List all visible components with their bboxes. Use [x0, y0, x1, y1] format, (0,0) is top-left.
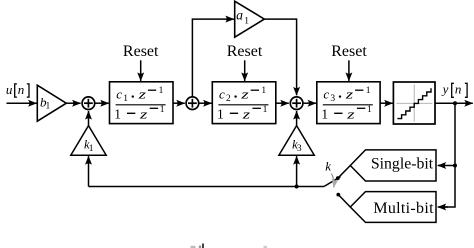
- wire a1 to sum3 top: [264, 19, 296, 95]
- DAC block Single-bit: [350, 150, 436, 181]
- summing junction S3: [290, 97, 303, 110]
- amplifier k1: [71, 126, 106, 156]
- switch arm: [324, 177, 341, 187]
- svg-text:z: z: [346, 107, 355, 121]
- integrator block 3: [317, 82, 380, 124]
- wire input arrow into b1: [7, 102, 37, 104]
- wire reset arrow 3: [348, 60, 350, 81]
- svg-text:z: z: [345, 87, 354, 101]
- svg-text:z: z: [240, 87, 249, 101]
- DAC block Multi-bit: [350, 192, 436, 223]
- wire feedback up to k3: [296, 156, 298, 186]
- wire block2 to sum3: [276, 102, 289, 104]
- svg-text:k: k: [325, 159, 331, 174]
- wire feedback bus: [89, 186, 325, 188]
- wire b1 to sum1: [66, 102, 80, 104]
- svg-text:Reset: Reset: [331, 43, 367, 60]
- integrator block 1: [110, 82, 174, 124]
- quantizer block: [393, 82, 435, 124]
- wire quantizer to output: [435, 102, 473, 104]
- wire block3 to quantizer: [380, 102, 393, 104]
- svg-text:Multi-bit: Multi-bit: [373, 200, 434, 217]
- switch actuation arrow: [332, 174, 335, 188]
- svg-text:z: z: [137, 87, 146, 101]
- summing junction S2: [186, 97, 199, 110]
- wire k1 to sum1: [88, 111, 90, 126]
- wire reset arrow 2: [244, 60, 246, 81]
- wire feedback up to k1: [88, 156, 90, 186]
- wire sum2 to block2: [199, 102, 211, 104]
- wire contact to Multi-bit tip: [338, 195, 350, 207]
- svg-text:Reset: Reset: [123, 43, 159, 60]
- wire sum1 to block1: [95, 102, 108, 104]
- amplifier a1: [235, 1, 265, 37]
- wire reset arrow 1: [140, 60, 142, 81]
- wire sum3 to block3: [304, 102, 317, 104]
- amplifier b1: [37, 85, 66, 121]
- node junction dot k3 tap: [295, 185, 299, 189]
- wire contact to Single-bit tip: [338, 166, 351, 179]
- svg-text:Reset: Reset: [227, 43, 263, 60]
- caption remnant: [191, 244, 268, 248]
- amplifier k3: [279, 126, 314, 156]
- svg-text:Single-bit: Single-bit: [371, 156, 434, 173]
- svg-text:z: z: [139, 107, 148, 121]
- wire k3 to sum3: [296, 111, 298, 126]
- svg-text:z: z: [242, 107, 251, 121]
- wire block1 to sum2: [173, 102, 185, 104]
- wire arrow into Single-bit: [438, 165, 455, 167]
- node switch contact lower: [336, 193, 340, 197]
- node junction dot DAC branch: [453, 164, 457, 168]
- node junction dot on output: [453, 101, 457, 105]
- summing junction S1: [82, 97, 95, 110]
- wire output down to DACs: [444, 103, 456, 207]
- wire sum2 top to a1 feed: [192, 19, 234, 96]
- wire arrow into Multi-bit: [438, 206, 448, 208]
- integrator block 2: [212, 82, 275, 124]
- node switch contact upper: [336, 176, 340, 180]
